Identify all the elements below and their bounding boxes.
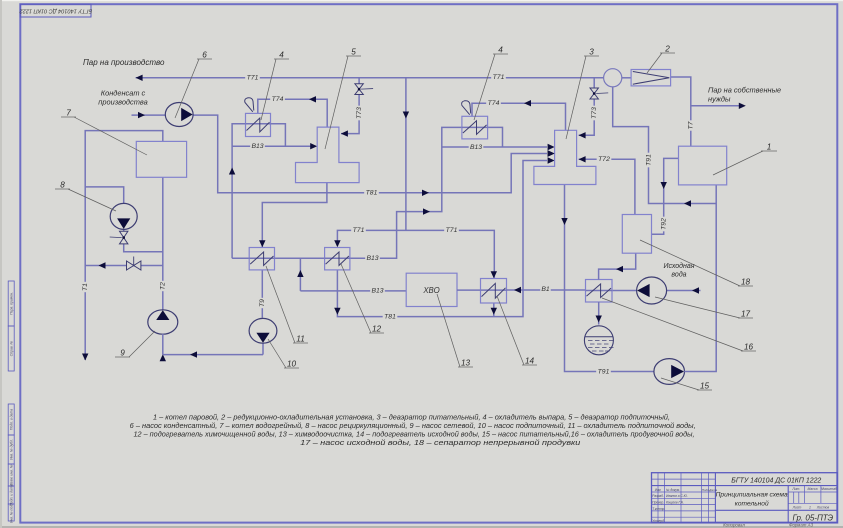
wire make-up water from deaerator 5 through HX11 to pump 10 xyxy=(259,183,327,318)
label T7 (rotated) xyxy=(686,120,695,130)
wire feed water from deaerator 3 down to T91 line and pump 15 xyxy=(561,185,654,372)
wire B1 raw water line into HX14 xyxy=(507,287,565,293)
wire hot water boiler 7 circuit T1 xyxy=(82,131,163,361)
svg-text:1: 1 xyxy=(809,505,811,509)
svg-text:Пар на производство: Пар на производство xyxy=(83,58,165,67)
svg-text:Т71: Т71 xyxy=(493,74,505,81)
pump 10 (насос подпиточный) xyxy=(249,318,277,343)
callout 17 xyxy=(655,297,753,319)
svg-text:Справ. №: Справ. № xyxy=(10,340,14,356)
label T81 on header xyxy=(364,188,379,197)
svg-text:Листов: Листов xyxy=(816,505,830,509)
wire T73 valve line into deaerator 5 xyxy=(341,78,359,137)
pump 17 (насос исходной воды) xyxy=(637,277,667,304)
label T71 on header (right) xyxy=(491,73,506,82)
callout 5 xyxy=(325,48,361,150)
text below title block xyxy=(723,523,813,528)
text steam for own needs xyxy=(708,86,781,104)
svg-text:БГТУ 140104 ДС 01КП 1222: БГТУ 140104 ДС 01КП 1222 xyxy=(731,476,821,485)
wire condensate line from production through pump 6 to T81 header and deaerator 3 xyxy=(132,112,555,196)
svg-text:Взам. инв. №: Взам. инв. № xyxy=(10,464,14,485)
valve under pump 8 xyxy=(110,231,128,244)
svg-text:Копировал: Копировал xyxy=(723,523,745,528)
POY inlet circle xyxy=(604,69,622,87)
heat exchanger 16 (охладитель продувочной воды) xyxy=(586,280,613,303)
deaerator 3 (деаэратор питательный) xyxy=(534,130,596,184)
drain tank with water level xyxy=(584,326,613,355)
pump 6 (насос конденсатный) xyxy=(165,103,193,127)
callout 12 xyxy=(341,264,384,334)
svg-text:10: 10 xyxy=(287,360,297,369)
svg-text:17 – насос исходной воды, 18 –: 17 – насос исходной воды, 18 – сепаратор… xyxy=(300,438,580,447)
vent flag on cooler 4b xyxy=(462,101,471,115)
wire T72 vent steam from separator 18 to deaerator 3 xyxy=(579,156,635,214)
svg-text:Разраб.: Разраб. xyxy=(652,494,664,498)
label B13 on XBO line xyxy=(370,286,385,295)
callout 9 xyxy=(115,331,155,358)
svg-text:14: 14 xyxy=(525,357,535,366)
svg-text:ХВО: ХВО xyxy=(422,286,439,295)
svg-text:№ докум.: № докум. xyxy=(666,488,680,492)
XBO chemical water treatment box 13 xyxy=(406,273,457,306)
svg-text:В13: В13 xyxy=(371,288,383,295)
label T92 (rotated) xyxy=(659,217,668,232)
svg-text:Провер.: Провер. xyxy=(652,500,664,504)
wire feed water riser from pump 15 to boiler 1 xyxy=(684,185,716,372)
svg-text:15: 15 xyxy=(700,382,710,391)
svg-text:3: 3 xyxy=(589,48,594,57)
svg-text:5: 5 xyxy=(351,48,356,57)
svg-text:Гр. 05-ПТЭ: Гр. 05-ПТЭ xyxy=(792,513,833,522)
label B1 xyxy=(540,285,550,294)
svg-text:Инв. № дубл.: Инв. № дубл. xyxy=(10,439,14,460)
svg-text:Т9: Т9 xyxy=(259,299,266,307)
label T71 on distribution (left) xyxy=(351,226,366,235)
wire suction line pump 10 to pump 9 xyxy=(160,334,263,361)
wire POY circle to T71 header xyxy=(622,77,631,79)
heat exchanger 14 (подогреватель исходной воды) xyxy=(481,279,507,304)
label T91 on injection riser (rotated) xyxy=(644,153,653,168)
label T9 at pump 10 (rotated) xyxy=(258,298,267,308)
wire steam from boiler 1 up to POY, branch to own needs xyxy=(671,77,746,146)
svg-text:11: 11 xyxy=(296,335,305,344)
boiler 1 (котел паровой) xyxy=(679,146,727,185)
callout 10 xyxy=(268,339,299,369)
callout 1 xyxy=(713,143,777,176)
wire HX16 drain into drain tank xyxy=(596,302,602,325)
svg-text:Лист: Лист xyxy=(792,505,802,509)
callout 4 (left) xyxy=(261,51,289,121)
svg-text:17: 17 xyxy=(741,310,751,319)
label T74 right xyxy=(486,99,501,108)
svg-text:Формат А3: Формат А3 xyxy=(789,523,814,528)
svg-text:7: 7 xyxy=(66,109,71,118)
wire B13 purified water riser through cooler 4a into deaerator 5 xyxy=(229,124,317,259)
label T2 (rotated) xyxy=(158,281,167,291)
wire T74 vent line deaerator 5 to cooler 4a xyxy=(258,96,327,127)
cooler 4b (охладитель выпара) xyxy=(462,116,488,139)
hot water boiler 7 (котел водогрейный) xyxy=(136,141,186,177)
top-left inverted stamp box xyxy=(19,4,92,17)
vent flag on cooler 4a xyxy=(245,98,254,112)
legend text xyxy=(130,412,696,447)
wire T2 line boiler 7 to network pump 9 xyxy=(162,177,164,310)
callout 6 xyxy=(175,51,212,119)
svg-text:В1: В1 xyxy=(541,286,550,293)
svg-text:Конденсат с: Конденсат с xyxy=(101,89,146,98)
label T73 left (rotated) xyxy=(355,106,364,121)
wire T81 condensate drain line from HX12 and HX14 to deaerator 3 xyxy=(334,157,554,316)
svg-text:котельной: котельной xyxy=(735,500,769,508)
wire B13 line from XBO to riser xyxy=(300,290,406,292)
pump 9 (насос сетевой) xyxy=(148,310,178,334)
callout 14 xyxy=(497,296,537,366)
callout 7 xyxy=(61,109,147,156)
callout 18 xyxy=(640,240,753,287)
svg-text:Инв. № подл.: Инв. № подл. xyxy=(10,502,14,523)
wire blowdown from separator 18 into HX16 xyxy=(599,253,636,279)
svg-text:Т92: Т92 xyxy=(660,218,667,230)
callout 15 xyxy=(661,378,712,391)
svg-text:Т71: Т71 xyxy=(446,227,458,234)
svg-text:6: 6 xyxy=(202,51,207,60)
svg-text:9: 9 xyxy=(120,349,125,358)
label B13 right of HX12 xyxy=(365,254,380,263)
label B13 at cooler 4a xyxy=(250,142,265,151)
svg-text:Лит.: Лит. xyxy=(791,487,800,491)
label T73 right (rotated) xyxy=(590,106,599,121)
wire recirculation branch through pump 8 xyxy=(85,187,163,252)
svg-text:Т74: Т74 xyxy=(488,100,500,107)
svg-text:Принципиальная схема: Принципиальная схема xyxy=(716,492,788,499)
callout 3 xyxy=(566,48,599,140)
wire crossover line with valve between T1 and T2 xyxy=(85,262,163,268)
label T74 left xyxy=(270,95,285,104)
svg-text:8: 8 xyxy=(60,181,65,190)
callout 4 (right) xyxy=(474,46,508,121)
left margin attribute cells xyxy=(8,281,14,523)
heat exchanger 11 (охладитель подпиточной воды) xyxy=(249,248,274,270)
svg-text:производства: производства xyxy=(98,98,147,107)
svg-text:Т91: Т91 xyxy=(598,368,610,375)
svg-text:Т1: Т1 xyxy=(82,283,89,291)
callout 13 xyxy=(437,294,473,368)
wire HX11-HX12 water line with XBO feed riser xyxy=(232,258,325,291)
svg-text:Т73: Т73 xyxy=(591,107,598,119)
text steam to production xyxy=(83,58,165,67)
svg-text:вода: вода xyxy=(671,271,686,279)
wire T74 vent line deaerator 3 to cooler 4b xyxy=(472,100,566,130)
svg-text:18: 18 xyxy=(741,278,751,287)
svg-text:4: 4 xyxy=(279,51,284,60)
svg-text:Утверд.: Утверд. xyxy=(652,519,665,523)
pump 15 (насос питательный) xyxy=(654,359,685,385)
callout 8 xyxy=(55,181,116,212)
pump 8 (насос рециркуляционный) xyxy=(110,203,137,229)
svg-text:4: 4 xyxy=(498,46,503,55)
label T91 on feed line (bottom) xyxy=(596,367,611,376)
wire desuperheating water branch to POY circle xyxy=(613,87,717,207)
valve on T73 line (right) xyxy=(590,88,608,99)
svg-text:В13: В13 xyxy=(470,144,482,151)
title block xyxy=(652,473,838,523)
svg-text:Т74: Т74 xyxy=(272,96,284,103)
wire T71 main steam header xyxy=(136,75,604,81)
label T71 on distribution (right) xyxy=(444,226,459,235)
heat exchanger 12 (подогреватель химочищенной воды) xyxy=(325,248,350,270)
svg-text:Т71: Т71 xyxy=(353,227,365,234)
svg-text:Т91: Т91 xyxy=(645,154,652,166)
valve on crossover line xyxy=(127,257,141,271)
svg-text:Т7: Т7 xyxy=(688,121,695,129)
svg-text:В13: В13 xyxy=(366,255,378,262)
svg-text:Пар на собственные: Пар на собственные xyxy=(708,86,781,95)
wire boiler blowdown T92 into separator 18 xyxy=(652,158,679,234)
svg-text:12: 12 xyxy=(372,325,382,334)
svg-text:Т72: Т72 xyxy=(598,156,610,163)
text raw water xyxy=(663,262,694,279)
svg-text:Т81: Т81 xyxy=(366,190,378,197)
three inlet arrows deaerator 3 (already drawn tips) middle arrow wire xyxy=(548,150,555,156)
svg-text:16: 16 xyxy=(744,343,754,352)
svg-text:1 – котел паровой, 2 – редукци: 1 – котел паровой, 2 – редукционно-охлад… xyxy=(153,412,670,421)
label T71 on header (left) xyxy=(245,73,260,82)
svg-text:Иванов а С.Ю.: Иванов а С.Ю. xyxy=(666,494,688,498)
wire T71 distribution line to HX12 and HX14 xyxy=(334,230,497,278)
label T1 (rotated) xyxy=(81,282,90,292)
svg-text:2: 2 xyxy=(664,45,670,54)
wire T73 valve line into deaerator 3 xyxy=(579,78,595,139)
wire B1 from HX16 to pump 17 and raw water stub xyxy=(565,287,701,293)
svg-text:Подп. и дата: Подп. и дата xyxy=(10,409,14,430)
label T81 on drain line xyxy=(383,312,398,321)
callout 16 xyxy=(602,298,756,352)
svg-text:Т71: Т71 xyxy=(247,75,259,82)
svg-text:Перв. примен.: Перв. примен. xyxy=(10,292,14,315)
svg-text:Изм: Изм xyxy=(655,488,662,492)
svg-text:Т81: Т81 xyxy=(384,313,396,320)
callout 11 xyxy=(266,266,308,344)
svg-text:13: 13 xyxy=(461,359,471,368)
svg-text:Т73: Т73 xyxy=(356,107,363,119)
svg-text:Т.контр.: Т.контр. xyxy=(652,507,665,511)
label T72 xyxy=(597,155,612,164)
POY unit 2 (редукционно-охладительная установка) xyxy=(631,70,671,86)
wire B13 from HX12 up and over to cooler 4b and deaerator 3 xyxy=(350,127,555,258)
svg-text:1: 1 xyxy=(767,143,772,152)
svg-text:Т2: Т2 xyxy=(160,282,167,290)
label B13 at cooler 4b xyxy=(469,142,484,151)
deaerator 5 (деаэратор подпиточный) xyxy=(296,127,360,183)
svg-text:Масса: Масса xyxy=(807,487,817,491)
svg-text:нужды: нужды xyxy=(708,95,731,104)
callout 2 xyxy=(647,45,675,74)
cooler 4a (охладитель выпара) xyxy=(246,113,271,136)
wire XBO to HX14 xyxy=(457,289,481,291)
svg-text:Масштаб: Масштаб xyxy=(821,487,837,491)
wire steam branch from T71 down to T71 distribution line xyxy=(403,78,409,231)
text condensate from production xyxy=(98,89,147,107)
separator 18 (сепаратор непрерывной продувки) xyxy=(622,215,651,254)
svg-text:В13: В13 xyxy=(251,143,263,150)
svg-text:БГТУ 140104 ДС 01КП 1222: БГТУ 140104 ДС 01КП 1222 xyxy=(19,7,92,13)
svg-text:Кощеев Г.А.: Кощеев Г.А. xyxy=(666,500,684,504)
valve on T73 line (left) xyxy=(355,84,373,95)
